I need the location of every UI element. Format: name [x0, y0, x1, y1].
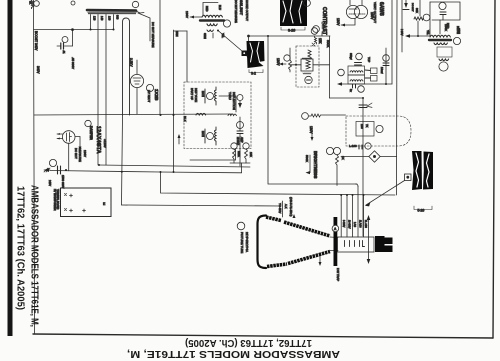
- capacitor L-100: [358, 145, 360, 149]
- wire y=36 to left arrow 130v: [407, 35, 430, 37]
- wire diagonal from T1 to vert cluster: [218, 31, 242, 52]
- node B+: [71, 1, 75, 5]
- 1X2B HV rect tube: [130, 74, 143, 87]
- width coil L (top scalloped band): [87, 9, 136, 12]
- capacitor C10: [62, 37, 68, 43]
- svg-text:3K: 3K: [29, 1, 33, 4]
- CRT yoke bottom band: [267, 264, 287, 267]
- coil form box: [301, 59, 313, 71]
- svg-text:DO NOT MEASURE: DO NOT MEASURE: [151, 22, 155, 48]
- 6AW8 dual tube: [346, 5, 359, 18]
- wire: horizontal y=36: [249, 35, 331, 37]
- wire: vertical x=248.5: [248, 36, 250, 41]
- HV transformer terminal board: [61, 188, 112, 217]
- CRT socket connector black: [375, 236, 385, 252]
- svg-text:10uuf: 10uuf: [380, 67, 384, 74]
- beam line with arrows: [368, 217, 370, 262]
- svg-text:YEL: YEL: [221, 33, 225, 38]
- svg-text:MEASURE: MEASURE: [78, 148, 82, 162]
- waveform photo 1: [280, 0, 307, 26]
- svg-text:12AX4GTA: 12AX4GTA: [95, 126, 101, 154]
- svg-text:500K: 500K: [305, 155, 309, 162]
- svg-text:YEL: YEL: [426, 30, 430, 35]
- svg-text:BOOST 340V: BOOST 340V: [34, 31, 38, 51]
- svg-text:3 400V: 3 400V: [342, 220, 344, 228]
- CRT picture tube faceplate: [258, 216, 267, 269]
- svg-text:DEFLECTION: DEFLECTION: [232, 92, 236, 110]
- svg-text:3-2: 3-2: [251, 72, 256, 76]
- svg-text:5-26: 5-26: [418, 209, 425, 213]
- svg-text:AMP: AMP: [240, 137, 244, 143]
- CRT gun bar: [334, 217, 338, 266]
- dashed CRT bulb box: [346, 116, 411, 146]
- svg-text:BRIGHTNESS: BRIGHTNESS: [313, 151, 318, 179]
- anode circle A: [332, 225, 339, 232]
- svg-text:100: 100: [360, 124, 364, 129]
- svg-text:I 30V: I 30V: [400, 29, 404, 36]
- svg-text:.01: .01: [62, 50, 66, 54]
- 130v down arrow mid: [311, 128, 313, 138]
- svg-text:140: 140: [100, 16, 104, 21]
- svg-text:3-26: 3-26: [288, 29, 295, 33]
- svg-text:BLK: BLK: [183, 116, 187, 122]
- svg-text:DAMPER: DAMPER: [89, 126, 93, 141]
- svg-text:130V: 130V: [276, 58, 280, 66]
- down arrow under funnel: [319, 256, 321, 264]
- ion trap wire x=282: [282, 201, 284, 217]
- sound takeoff arrow top: [405, 0, 407, 3]
- svg-text:HORIZ OUTPUT: HORIZ OUTPUT: [245, 0, 249, 21]
- horiz deflection coils dashed box: [184, 82, 251, 149]
- resistors at bottom of dashed box: [231, 143, 237, 149]
- svg-text:130V: 130V: [83, 150, 87, 157]
- vert lin coil dashed box: [296, 46, 319, 87]
- svg-text:GRN: GRN: [457, 28, 461, 34]
- svg-text:A.K: A.K: [284, 204, 288, 209]
- wire: long horizontal y=115: [34, 114, 233, 115]
- svg-text:130V: 130V: [309, 126, 313, 134]
- wire joining windings: [235, 96, 237, 112]
- svg-text:7K: 7K: [365, 124, 369, 128]
- damper tube 12AX4GTA: [62, 131, 75, 144]
- svg-text:DO NOT: DO NOT: [411, 3, 413, 12]
- svg-text:11 AG0: 11 AG0: [359, 220, 362, 228]
- svg-text:DEF YOKE: DEF YOKE: [194, 88, 198, 102]
- svg-text:130: 130: [108, 16, 112, 21]
- connector square M w/ diagonal: [405, 174, 412, 181]
- horiz amp cluster: [228, 114, 236, 115]
- svg-text:(ON-5-F1-5RO): (ON-5-F1-5RO): [289, 197, 293, 216]
- junction dots: [160, 114, 162, 116]
- wire from T1 top to right: [203, 3, 218, 17]
- far right T2 transformer cluster: [430, 2, 460, 20]
- yoke winding 1: [207, 93, 214, 100]
- coil mid: [196, 113, 206, 115]
- svg-text:.05 600V: .05 600V: [71, 57, 75, 69]
- wire y=84: [339, 83, 392, 85]
- svg-text:DO NOT MEASURE: DO NOT MEASURE: [234, 0, 237, 23]
- svg-text:10 400V: 10 400V: [348, 220, 350, 229]
- branch x=386 with cap: [385, 48, 387, 84]
- svg-text:1X2B: 1X2B: [154, 89, 159, 101]
- svg-text:AMBASSADOR MODELS 17TT61E, M,: AMBASSADOR MODELS 17TT61E, M,: [29, 185, 41, 327]
- svg-text:17TT62, 17TT63 (Ch. A2005): 17TT62, 17TT63 (Ch. A2005): [185, 337, 312, 348]
- svg-text:TOP: TOP: [367, 57, 371, 63]
- svg-text:680pf: 680pf: [349, 53, 353, 60]
- wire through coil: [290, 64, 301, 66]
- svg-text:+120V: +120V: [103, 139, 107, 148]
- vertical wire x=363 with gap: [362, 98, 364, 236]
- wire: L corner to yoke line: [122, 205, 281, 206]
- svg-text:2 AG: 2 AG: [353, 222, 356, 227]
- svg-text:17TT62, 17TT63 (Ch. A2005): 17TT62, 17TT63 (Ch. A2005): [15, 186, 27, 310]
- svg-text:HV TRANSFORMER: HV TRANSFORMER: [53, 189, 56, 211]
- svg-text:6SL5GT: 6SL5GT: [239, 0, 244, 16]
- picture tube label: [237, 222, 245, 230]
- svg-text:BLK: BLK: [237, 151, 241, 156]
- svg-text:DO NOT: DO NOT: [74, 148, 78, 159]
- svg-text:340V: 340V: [36, 66, 40, 74]
- coil tap wires: [90, 15, 92, 30]
- vertical wire x=122: [122, 115, 123, 205]
- svg-text:RED: RED: [446, 23, 450, 29]
- right resistor 36K: [419, 0, 421, 16]
- capacitor C20 + ground: [49, 159, 56, 166]
- wire: vertical x=268: [268, 36, 357, 184]
- svg-text:BLU: BLU: [218, 5, 222, 10]
- wire: L corner x=161: [161, 172, 396, 195]
- trimmer boxes right: [371, 68, 378, 74]
- svg-text:MOH: MOH: [201, 131, 204, 137]
- svg-text:HV RECT: HV RECT: [147, 90, 151, 103]
- base pin wires: [340, 195, 342, 237]
- svg-text:AMBASSADOR MODELS 17TT61E, M,: AMBASSADOR MODELS 17TT61E, M,: [127, 348, 340, 360]
- svg-text:MOH: MOH: [201, 91, 204, 97]
- svg-text:240V: 240V: [48, 180, 52, 186]
- svg-text:10K: 10K: [249, 152, 253, 157]
- wire: vertical x=329.5 contrast branch: [329, 36, 331, 98]
- left black margin bar: [8, 0, 13, 336]
- bottom border line: [33, 334, 493, 338]
- waveform photo 3: [247, 41, 265, 68]
- svg-text:BRN: BRN: [175, 31, 179, 37]
- CRT yoke top band: [266, 217, 281, 221]
- wire: top-left boost wire y=29.6: [34, 29, 115, 31]
- wire +130v arrow at T1: [190, 16, 202, 18]
- B+ bus verticals: [391, 0, 393, 84]
- svg-text:PICTURE TUBE: PICTURE TUBE: [240, 232, 244, 253]
- wire: horizontal H1: [99, 165, 250, 167]
- svg-text:RED: RED: [205, 6, 209, 12]
- svg-text:21YP4/21YP4A: 21YP4/21YP4A: [245, 232, 249, 252]
- svg-text:PART OF: PART OF: [190, 88, 194, 100]
- svg-text:2.5KV: 2.5KV: [129, 58, 133, 68]
- svg-text:1500 600V: 1500 600V: [61, 175, 65, 189]
- svg-text:130V: 130V: [185, 11, 189, 18]
- wire y=98: [330, 97, 364, 99]
- CRT base box: [338, 237, 375, 252]
- wire from tube to 130v arrow: [341, 19, 355, 26]
- capacitor below wire: [352, 85, 354, 89]
- svg-text:GRN: GRN: [203, 33, 207, 39]
- wire: long boost wire H2: [50, 171, 242, 173]
- yoke winding 2: [207, 133, 214, 140]
- capacitor above coils: [356, 53, 363, 60]
- heater loop: [123, 18, 130, 115]
- spark gap diamond: [341, 156, 369, 158]
- wire from T1 secondary down: [174, 30, 188, 32]
- sound take-off coil boxes: [348, 66, 365, 75]
- svg-text:ION TRAP: ION TRAP: [336, 268, 340, 281]
- left thin border line: [34, 0, 35, 334]
- svg-text:YO-5RV: YO-5RV: [278, 203, 282, 213]
- CRT neck lines: [330, 236, 338, 239]
- bracket under waveform 1: [281, 27, 305, 30]
- svg-text:130V: 130V: [336, 18, 340, 26]
- svg-text:6AW8: 6AW8: [378, 2, 384, 16]
- brightness control: [326, 147, 333, 154]
- resistor cluster x=290: [284, 55, 290, 61]
- svg-text:000: 000: [116, 15, 120, 20]
- svg-text:120: 120: [93, 16, 97, 21]
- waveform photo 2: [412, 151, 422, 190]
- svg-text:165V: 165V: [370, 12, 374, 20]
- svg-text:15K: 15K: [318, 38, 322, 45]
- resistor 15K on y=36: [311, 28, 318, 35]
- wire: x=357 corner down: [356, 184, 359, 187]
- svg-text:36K: 36K: [415, 8, 419, 13]
- wire: vertical x=173: [173, 30, 175, 172]
- resistor x=336: [333, 147, 340, 154]
- resistor feeding CRT grid: [302, 113, 309, 120]
- transformer T1: [202, 15, 222, 17]
- resistor R40 top-left: [32, 0, 34, 9]
- right border line: [493, 0, 495, 338]
- svg-text:BL AG0: BL AG0: [364, 220, 367, 229]
- svg-text:TERMINAL BOARD: TERMINAL BOARD: [56, 189, 59, 210]
- wire: vertical x=160 from coil: [159, 0, 161, 115]
